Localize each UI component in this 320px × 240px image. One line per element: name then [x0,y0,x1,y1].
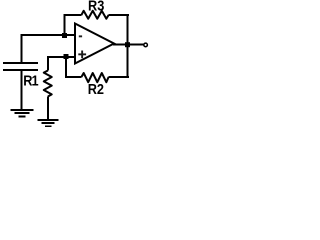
ground (under R1) [38,119,59,128]
wire right vertical (R3 to output node to R2) [127,14,129,77]
op-amp U1 [75,24,114,64]
wire R3 right lead [109,14,129,16]
svg-text:R2: R2 [88,80,105,97]
wire R1 bottom lead to ground [47,97,49,120]
resistor R1 [44,71,52,97]
capacitor C1 [3,62,38,71]
node junction at non-inverting input [64,54,69,59]
wire R3 left vertical to inverting node [63,15,65,36]
wire non-inverting node down to R2 [65,57,67,78]
node output terminal (open circle) [144,43,148,47]
op-amp U1 inverting pin mark (-) [79,35,82,37]
wire R3 left lead [63,14,81,16]
wire capacitor bottom lead to ground [21,71,23,109]
node junction at output [125,42,130,47]
resistor R3 [81,11,108,19]
svg-text:R1: R1 [23,72,39,89]
wire inverting-input line from capacitor to op-amp [21,34,76,36]
wire R1 top lead (vertical) [47,56,49,71]
wire R2 right lead [109,76,129,78]
op-amp U1 non-inverting pin mark (+) [78,51,86,59]
svg-text:R3: R3 [88,0,105,14]
resistor R2 [81,73,108,82]
wire R2 left lead [65,76,81,78]
ground (left, under capacitor) [11,109,34,118]
wire non-inverting-input line to op-amp [47,56,76,58]
node junction at inverting input [62,33,67,38]
wire op-amp output line [113,44,143,46]
wire capacitor top lead (vertical) [21,34,23,62]
